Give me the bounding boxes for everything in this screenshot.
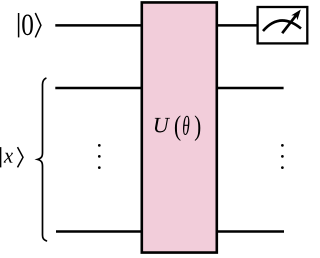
gate label U(theta) bbox=[155, 118, 170, 133]
unitary gate box U(theta) bbox=[142, 2, 217, 252]
left curly brace grouping |x> wires bbox=[38, 78, 47, 241]
meter needle line bbox=[282, 15, 296, 33]
gate label left paren bbox=[175, 115, 181, 141]
ket label |0> : bar bbox=[18, 13, 20, 37]
gate label theta bbox=[183, 116, 189, 135]
gate label right paren bbox=[195, 115, 200, 141]
meter gauge arc bbox=[263, 20, 301, 31]
ket label |0> : right angle bracket bbox=[35, 13, 41, 37]
wire q1 right segment bbox=[216, 87, 284, 90]
left vertical ellipsis dots bbox=[98, 144, 101, 147]
ket label |x> : bar bbox=[0, 147, 2, 167]
wire qn left segment bbox=[56, 230, 142, 233]
right vertical ellipsis dots bbox=[281, 144, 284, 147]
wire qn right segment bbox=[216, 230, 284, 233]
ket label |0> : digit 0 bbox=[22, 14, 33, 35]
meter needle arrowhead bbox=[291, 10, 301, 21]
wire q0 right segment to meter bbox=[216, 24, 257, 27]
measurement meter box bbox=[258, 7, 308, 43]
ket label |x> : right angle bracket bbox=[18, 147, 24, 167]
wire q1 left segment bbox=[55, 87, 142, 90]
wire q0 left segment bbox=[55, 24, 142, 27]
ket label |x> : italic x bbox=[4, 153, 13, 163]
